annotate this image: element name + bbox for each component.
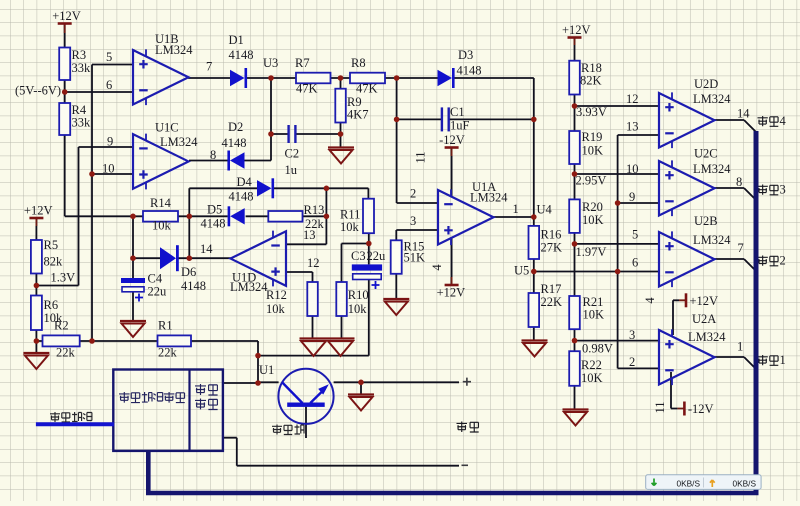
wire 1.3V feedback bbox=[36, 147, 78, 286]
capacitor C4 22u bbox=[121, 272, 167, 302]
svg-text:R12: R12 bbox=[266, 288, 287, 302]
node C1 right bbox=[531, 117, 537, 123]
resistor R15 51K bbox=[391, 240, 425, 274]
node R13 pin13 bbox=[324, 214, 330, 220]
node R9 C2 gnd bbox=[338, 131, 344, 137]
resistor R17 22K bbox=[529, 282, 563, 327]
wire node to emitter bbox=[258, 381, 279, 383]
svg-text:R13: R13 bbox=[304, 203, 325, 217]
block input voltage switch box bbox=[113, 369, 223, 451]
op-amp U1C bbox=[102, 121, 216, 190]
wire D5 to R13 bbox=[246, 215, 269, 217]
resistor R6 10k bbox=[31, 296, 63, 331]
svg-text:R16: R16 bbox=[541, 228, 562, 242]
svg-text:LM324: LM324 bbox=[693, 233, 731, 247]
diode D5 4148 bbox=[201, 203, 245, 231]
power -12V U2A pin11 bbox=[684, 402, 713, 417]
svg-text:13: 13 bbox=[303, 228, 316, 242]
resistor R5 82k bbox=[31, 238, 63, 274]
diode D2 4148 bbox=[222, 120, 247, 171]
node C2 tap bbox=[268, 131, 274, 137]
power -12V U1A pin11 bbox=[439, 133, 465, 148]
svg-text:+12V: +12V bbox=[24, 204, 53, 218]
resistor R19 10K bbox=[569, 130, 603, 164]
svg-text:(5V--6V): (5V--6V) bbox=[15, 84, 61, 98]
wire D4 row bbox=[189, 188, 368, 198]
svg-text:13: 13 bbox=[626, 120, 639, 134]
wire R16 to R17 / U5 bbox=[533, 259, 535, 293]
svg-text:D6: D6 bbox=[181, 265, 196, 279]
svg-text:U4: U4 bbox=[537, 203, 553, 217]
svg-text:1: 1 bbox=[513, 202, 519, 216]
transistor U1 pass regulator bbox=[278, 369, 333, 424]
wire U2A pin11 bbox=[671, 372, 677, 409]
svg-text:4148: 4148 bbox=[457, 64, 482, 78]
wire U1C pin9 bbox=[79, 146, 134, 148]
node R6 R2 bbox=[34, 338, 40, 344]
wire R4 down to R14 row bbox=[65, 135, 143, 216]
wire U2A out pin1 bbox=[715, 357, 757, 370]
svg-text:LM324: LM324 bbox=[230, 280, 268, 294]
wire U1C pin10 bbox=[92, 173, 133, 175]
node C1 left bbox=[394, 117, 400, 123]
label minus terminal bbox=[462, 464, 469, 466]
wire C1 right bbox=[449, 118, 534, 120]
svg-text:LM324: LM324 bbox=[693, 92, 731, 106]
node C3 return bbox=[255, 353, 261, 359]
svg-text:3.93V: 3.93V bbox=[576, 105, 607, 119]
ground R15 bbox=[383, 299, 409, 315]
node R7 R8 R9 bbox=[338, 75, 344, 81]
node U5 bbox=[531, 269, 537, 275]
svg-text:10K: 10K bbox=[582, 213, 604, 227]
wire R14 to D5 bbox=[178, 215, 228, 217]
wire U1B pin5 bbox=[92, 64, 133, 66]
svg-text:10K: 10K bbox=[583, 308, 605, 322]
resistor R3 33k bbox=[59, 48, 91, 81]
svg-text:7: 7 bbox=[206, 60, 212, 74]
svg-text:2.95V: 2.95V bbox=[576, 174, 607, 188]
resistor R18 82K bbox=[569, 61, 602, 95]
net label 切换3 cjk bbox=[758, 185, 779, 195]
svg-text:LM324: LM324 bbox=[688, 330, 726, 344]
power +12V U2A pin4 bbox=[686, 293, 718, 308]
resistor R1 22k bbox=[158, 319, 192, 360]
svg-text:33k: 33k bbox=[72, 61, 92, 75]
node 2.95V bbox=[572, 171, 578, 177]
wire R7 to R8 bbox=[331, 77, 351, 79]
wire down to transistor node bbox=[257, 341, 259, 383]
svg-text:D2: D2 bbox=[228, 120, 243, 134]
wire D2 anode bbox=[245, 160, 272, 162]
svg-text:U2B: U2B bbox=[694, 214, 718, 228]
svg-text:0KB/S: 0KB/S bbox=[733, 478, 757, 488]
wire R5 to R6 bbox=[35, 274, 37, 296]
op-amp U1D bbox=[200, 228, 320, 294]
diode D1 4148 bbox=[229, 33, 254, 88]
wire U1A out pin1 bbox=[493, 216, 534, 218]
svg-text:4148: 4148 bbox=[229, 48, 254, 62]
wire U1D output pin14 bbox=[178, 257, 231, 259]
svg-text:12: 12 bbox=[307, 256, 320, 270]
svg-text:+12V: +12V bbox=[437, 286, 466, 300]
svg-text:5: 5 bbox=[106, 50, 112, 64]
power +12V R18 bbox=[562, 23, 591, 38]
svg-text:-12V: -12V bbox=[688, 402, 714, 416]
wire R9 bottom to ground bbox=[340, 123, 342, 148]
node 1.97V bbox=[572, 241, 578, 247]
wire ground stub bbox=[360, 382, 362, 394]
net label 切换1 cjk bbox=[758, 355, 779, 365]
node U3 bbox=[268, 75, 274, 81]
svg-text:C4: C4 bbox=[148, 272, 163, 286]
node bus U5 bbox=[615, 269, 621, 275]
svg-text:U1: U1 bbox=[259, 363, 274, 377]
wire U2D pin13 bbox=[618, 134, 659, 136]
text 输出 bbox=[457, 422, 479, 433]
svg-text:LM324: LM324 bbox=[155, 43, 193, 57]
capacitor C1 1uF bbox=[441, 105, 470, 133]
svg-text:14: 14 bbox=[737, 107, 750, 121]
node 5V-6V input bbox=[62, 89, 68, 95]
svg-text:22k: 22k bbox=[56, 346, 76, 360]
wire U4 to R16 bbox=[533, 217, 535, 226]
resistor R2 22k bbox=[43, 319, 80, 360]
wire box to minus terminal bbox=[223, 438, 459, 466]
wire D6 anode bbox=[133, 257, 165, 259]
label plus terminal bbox=[463, 378, 471, 386]
svg-text:4148: 4148 bbox=[222, 136, 247, 150]
svg-text:R7: R7 bbox=[295, 56, 310, 70]
svg-text:4: 4 bbox=[780, 114, 787, 128]
wire node to U1B pin6 bbox=[65, 91, 133, 93]
node 0.98V bbox=[572, 338, 578, 344]
svg-text:4148: 4148 bbox=[201, 217, 226, 231]
wire R11 to C3 bbox=[368, 233, 370, 264]
svg-text:11: 11 bbox=[414, 151, 428, 163]
svg-text:0KB/S: 0KB/S bbox=[677, 478, 701, 488]
wire R10 top to C3 node bbox=[342, 244, 369, 283]
power +12V U1A pin4 bbox=[437, 285, 466, 300]
wire node to D6/C4 bbox=[132, 216, 134, 258]
net label 切换2 cjk bbox=[758, 256, 779, 266]
wire R21 to R22 / U2A pin3 bbox=[575, 329, 660, 351]
text 交流输入 bbox=[50, 412, 92, 422]
svg-text:10k: 10k bbox=[266, 302, 286, 316]
resistor R11 10k bbox=[340, 199, 374, 234]
wire C4 top bbox=[132, 258, 134, 278]
ground R6 bbox=[23, 353, 49, 369]
svg-text:U1C: U1C bbox=[155, 121, 179, 135]
svg-text:C3: C3 bbox=[351, 249, 366, 263]
wire feedback R8 to U1A pin2 bbox=[397, 78, 438, 203]
svg-text:4: 4 bbox=[643, 297, 657, 304]
wire U2D out pin14 bbox=[715, 120, 757, 133]
wire R13 right bbox=[303, 215, 327, 217]
wire R8 to D3 bbox=[385, 77, 438, 79]
ground R17 bbox=[522, 341, 548, 357]
wire R3 to R4 node bbox=[64, 80, 66, 103]
svg-text:33k: 33k bbox=[72, 116, 92, 130]
svg-text:8: 8 bbox=[210, 148, 216, 162]
diode D6 4148 bbox=[160, 245, 206, 293]
svg-text:1u: 1u bbox=[285, 163, 298, 177]
ground R22 bbox=[563, 410, 589, 426]
svg-text:D3: D3 bbox=[458, 48, 473, 62]
svg-text:U3: U3 bbox=[263, 56, 278, 70]
diode D3 4148 bbox=[438, 48, 482, 88]
op-amp U2A bbox=[629, 297, 743, 414]
node R8 feedback bbox=[394, 75, 400, 81]
overlay network speed widget bbox=[646, 475, 761, 490]
resistor R14 10k bbox=[143, 196, 178, 233]
svg-text:R14: R14 bbox=[150, 196, 172, 210]
wire AC input thick bbox=[36, 422, 114, 426]
resistor R4 33k bbox=[59, 103, 91, 135]
wire U1C out pin8 bbox=[189, 160, 229, 162]
resistor R20 10K bbox=[569, 199, 603, 233]
svg-text:10k: 10k bbox=[340, 220, 360, 234]
node pin10 bus bbox=[89, 171, 95, 177]
node D6 U1D out bbox=[187, 255, 193, 261]
node D4 R13 bbox=[324, 186, 330, 192]
svg-text:82K: 82K bbox=[580, 74, 602, 88]
wire R6 to ground/R2 row bbox=[35, 330, 37, 353]
wire U1A pin11 bbox=[451, 148, 453, 198]
svg-text:1.3V: 1.3V bbox=[51, 271, 76, 285]
svg-text:R22: R22 bbox=[581, 358, 602, 372]
resistor R16 27K bbox=[529, 226, 563, 259]
ground output plus bbox=[348, 395, 374, 411]
node 3.93V bbox=[572, 103, 578, 109]
ground R12 R10 pair bbox=[300, 339, 355, 357]
svg-text:8: 8 bbox=[736, 175, 742, 189]
node bus pin9 bbox=[615, 200, 621, 206]
wire R20 to R21 / U2B pin5 bbox=[575, 233, 660, 296]
svg-text:47K: 47K bbox=[356, 82, 378, 96]
svg-text:C1: C1 bbox=[450, 105, 465, 119]
op-amp U2D bbox=[626, 77, 750, 148]
net label 切换4 cjk bbox=[758, 116, 779, 126]
wire U5 row to U2B pin6 bbox=[534, 271, 659, 273]
text 调整管 bbox=[272, 425, 304, 435]
svg-text:11: 11 bbox=[653, 401, 667, 413]
wire box to node bbox=[223, 382, 258, 384]
wire U1D pin12 to R12 bbox=[286, 272, 313, 282]
wire R19 to R20 / U2C pin10 bbox=[575, 164, 660, 199]
svg-text:2: 2 bbox=[780, 254, 786, 268]
wire R22 to ground bbox=[574, 386, 576, 410]
svg-text:3: 3 bbox=[780, 183, 786, 197]
svg-text:R19: R19 bbox=[582, 130, 603, 144]
svg-text:51K: 51K bbox=[404, 251, 426, 265]
diode D4 4148 bbox=[229, 175, 275, 204]
svg-text:12: 12 bbox=[626, 92, 639, 106]
resistor R8 47K bbox=[350, 56, 385, 96]
capacitor C2 1u bbox=[285, 125, 300, 177]
node U4 bbox=[531, 214, 537, 220]
svg-text:LM324: LM324 bbox=[160, 135, 198, 149]
svg-text:1: 1 bbox=[737, 340, 743, 354]
svg-text:1.97V: 1.97V bbox=[576, 245, 607, 259]
node R10 R11 C3 bbox=[366, 241, 372, 247]
svg-text:9: 9 bbox=[107, 135, 113, 149]
svg-text:4148: 4148 bbox=[229, 190, 254, 204]
wire C2 left bbox=[271, 133, 288, 135]
svg-text:6: 6 bbox=[106, 78, 112, 92]
resistor R21 10K bbox=[569, 295, 604, 329]
wire C4 bottom to ground bbox=[132, 292, 134, 322]
wire R17 to ground bbox=[533, 327, 535, 341]
wire D1 to U3 bbox=[245, 77, 271, 79]
svg-text:R17: R17 bbox=[541, 282, 562, 296]
bus thick bottom horizontal bbox=[146, 451, 759, 493]
svg-text:1uF: 1uF bbox=[450, 119, 470, 133]
svg-text:14: 14 bbox=[200, 242, 213, 256]
op-amp U2B bbox=[632, 214, 744, 287]
svg-text:+12V: +12V bbox=[52, 9, 81, 23]
svg-text:10: 10 bbox=[102, 162, 115, 176]
svg-text:D5: D5 bbox=[207, 203, 222, 217]
wire +12V to R3 bbox=[64, 24, 66, 48]
wire R9 top bbox=[340, 78, 342, 89]
svg-text:U5: U5 bbox=[514, 264, 529, 278]
text 整流 bbox=[195, 384, 218, 395]
text 滤波 bbox=[195, 399, 218, 410]
node regulator in bbox=[255, 380, 261, 386]
svg-text:1: 1 bbox=[780, 353, 786, 367]
svg-text:4K7: 4K7 bbox=[347, 108, 369, 122]
op-amp U1A bbox=[410, 151, 519, 270]
wire transistor base lead bbox=[305, 407, 307, 438]
svg-text:2: 2 bbox=[629, 355, 635, 369]
svg-text:0.98V: 0.98V bbox=[582, 342, 613, 356]
svg-text:R5: R5 bbox=[44, 238, 59, 252]
svg-text:R8: R8 bbox=[351, 56, 366, 70]
resistor R12 10k bbox=[266, 282, 318, 316]
wire U1A pin4 bbox=[451, 237, 453, 285]
ground C4 bbox=[120, 321, 146, 337]
svg-text:10K: 10K bbox=[582, 144, 604, 158]
ground R9/C2 bbox=[328, 148, 354, 164]
bus thick right vertical bbox=[754, 131, 759, 493]
wire +12V to R5 bbox=[35, 218, 37, 240]
svg-text:R20: R20 bbox=[582, 200, 603, 214]
resistor R7 47K bbox=[295, 56, 331, 96]
svg-text:10: 10 bbox=[626, 162, 639, 176]
svg-text:4: 4 bbox=[430, 264, 444, 271]
wire R2 row bbox=[36, 340, 258, 342]
wire U2C out pin8 bbox=[715, 188, 757, 201]
node collector bbox=[358, 380, 364, 386]
svg-text:D1: D1 bbox=[229, 33, 244, 47]
wire U3 to R7 bbox=[271, 77, 296, 79]
wire U3 down to D2 bbox=[270, 78, 272, 161]
power +12V R5 bbox=[24, 204, 53, 219]
svg-text:2: 2 bbox=[410, 187, 416, 201]
svg-text:7: 7 bbox=[738, 241, 744, 255]
svg-text:+12V: +12V bbox=[690, 294, 719, 308]
wire C1 left bbox=[397, 118, 442, 120]
svg-text:U2D: U2D bbox=[694, 77, 718, 91]
resistor R22 10K bbox=[569, 351, 602, 386]
svg-text:4148: 4148 bbox=[181, 279, 206, 293]
wire R15 to ground bbox=[395, 274, 397, 299]
svg-text:+12V: +12V bbox=[562, 23, 591, 37]
wire R13 node vertical bbox=[325, 188, 327, 244]
svg-text:U2A: U2A bbox=[692, 312, 716, 326]
svg-text:R10: R10 bbox=[348, 288, 369, 302]
wire U1A pin3 to R15 bbox=[396, 230, 438, 240]
svg-text:10K: 10K bbox=[581, 371, 603, 385]
wire U2A pin4 bbox=[673, 300, 679, 335]
capacitor C3 22u bbox=[351, 249, 386, 289]
power +12V top-left bbox=[52, 9, 81, 24]
wire U2A pin2 bbox=[618, 367, 659, 369]
svg-text:R2: R2 bbox=[54, 319, 69, 333]
power stub red segments bbox=[36, 24, 686, 409]
svg-text:-12V: -12V bbox=[439, 133, 465, 147]
node R2 bus bbox=[89, 338, 95, 344]
svg-text:82k: 82k bbox=[44, 255, 64, 269]
svg-text:LM324: LM324 bbox=[693, 162, 731, 176]
resistor R10 10k bbox=[336, 282, 368, 316]
svg-text:10k: 10k bbox=[348, 302, 368, 316]
svg-text:22K: 22K bbox=[541, 295, 563, 309]
wire U2C pin9 bbox=[618, 202, 659, 204]
svg-text:R1: R1 bbox=[158, 319, 173, 333]
svg-text:D4: D4 bbox=[237, 175, 253, 189]
svg-text:3: 3 bbox=[629, 328, 635, 342]
wire U2B out pin7 bbox=[715, 259, 757, 272]
wire +12V to R18 bbox=[574, 38, 576, 61]
node R14 D4 bbox=[187, 214, 193, 220]
node R14 left bbox=[130, 214, 136, 220]
wire bus pin5/pin10/R2 bbox=[91, 65, 93, 342]
resistor R13 22k bbox=[268, 203, 324, 231]
op-amp U1B bbox=[106, 32, 212, 105]
wire R18 to R19 / U2D pin12 bbox=[575, 95, 660, 132]
svg-text:22u: 22u bbox=[367, 249, 387, 263]
node 1.3V bbox=[34, 283, 40, 289]
wire U1D pin13 bbox=[286, 243, 326, 245]
svg-text:3: 3 bbox=[410, 214, 416, 228]
svg-text:C2: C2 bbox=[285, 147, 300, 161]
svg-text:6: 6 bbox=[632, 256, 638, 270]
wire D3 to U4 corner bbox=[453, 78, 534, 217]
svg-text:22k: 22k bbox=[158, 346, 178, 360]
svg-text:9: 9 bbox=[629, 190, 635, 204]
svg-text:R3: R3 bbox=[72, 48, 87, 62]
wire D4 to R14/D6 vertical bbox=[188, 188, 190, 258]
wire collector to plus terminal bbox=[334, 381, 459, 383]
svg-text:R6: R6 bbox=[44, 298, 59, 312]
svg-text:10k: 10k bbox=[152, 219, 172, 233]
wire U1B out pin7 bbox=[188, 77, 230, 79]
svg-text:22u: 22u bbox=[148, 285, 168, 299]
wire C3 bottom run bbox=[258, 280, 369, 356]
wire R10 to ground bbox=[341, 316, 343, 339]
wire R12 to ground bbox=[312, 316, 314, 339]
wire comparator bus bbox=[617, 135, 619, 368]
resistor R9 4K7 bbox=[335, 89, 368, 123]
svg-text:U2C: U2C bbox=[694, 147, 718, 161]
wire C2 right bbox=[296, 133, 340, 135]
svg-text:27K: 27K bbox=[541, 241, 563, 255]
svg-text:5: 5 bbox=[632, 228, 638, 242]
svg-text:LM324: LM324 bbox=[470, 191, 508, 205]
node D6 C4 bbox=[130, 255, 136, 261]
